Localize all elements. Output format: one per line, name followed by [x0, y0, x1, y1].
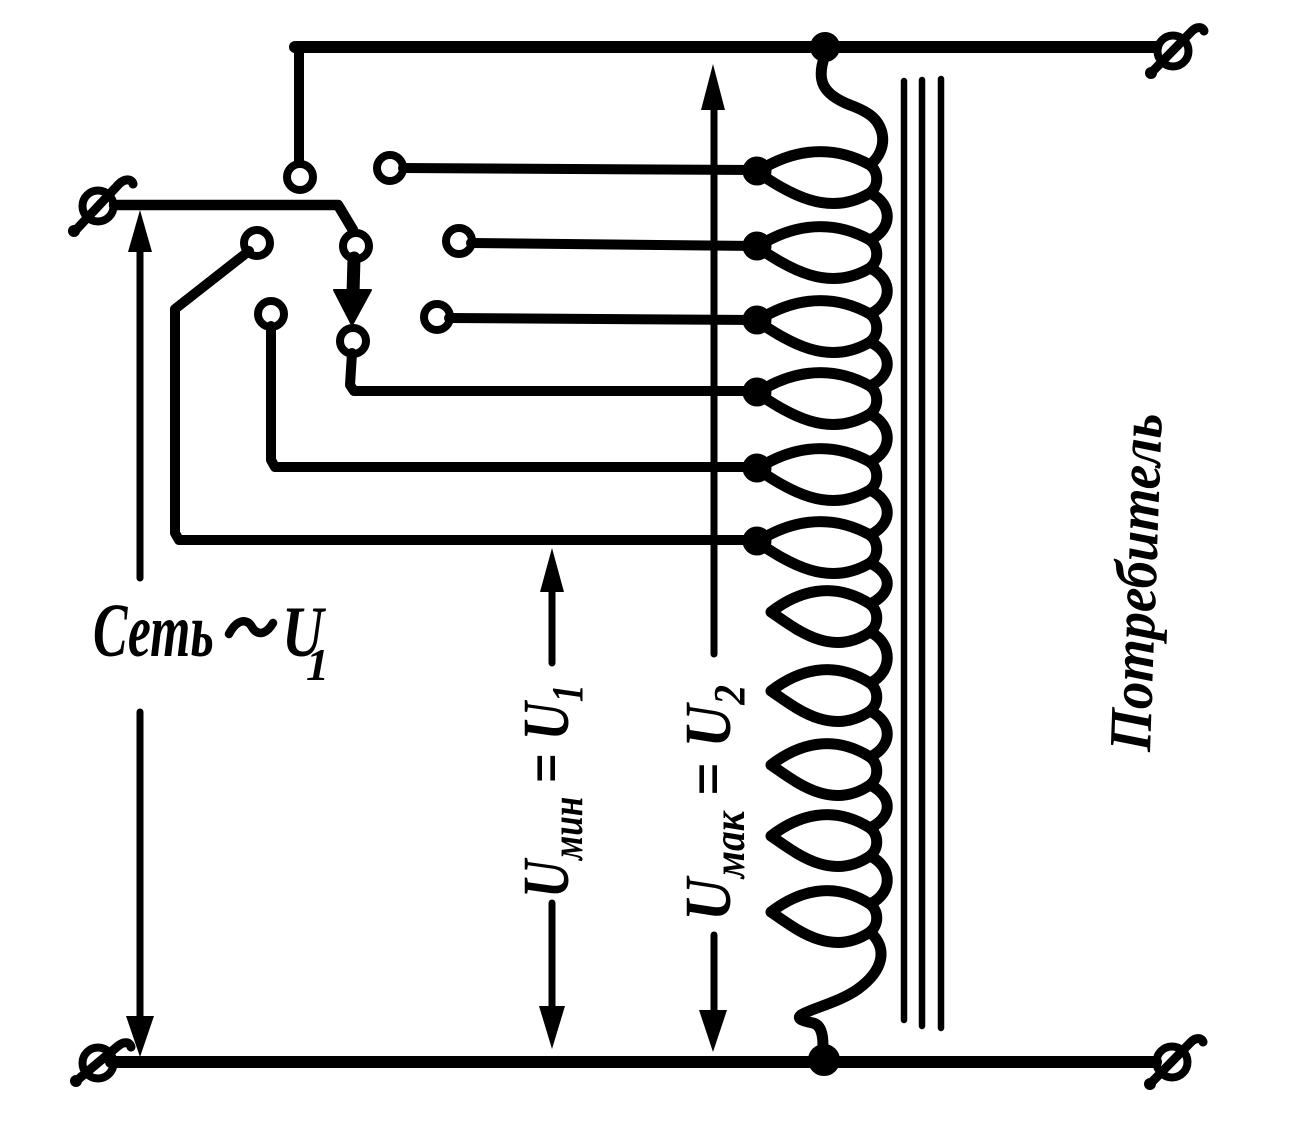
- winding loop 9: [771, 744, 877, 796]
- wire switch lower to winding tap 4: [350, 353, 756, 391]
- wire tap E to winding tap 1: [403, 168, 756, 170]
- svg-text:Потребитель: Потребитель: [1098, 412, 1176, 753]
- winding loop 5: [757, 449, 877, 501]
- winding arc 8-9: [870, 711, 887, 757]
- dimension arrow left U1: [126, 210, 154, 1057]
- label Сеть ~ U1: [93, 589, 329, 690]
- switch wiper arrow: [334, 258, 371, 325]
- winding loop 10: [771, 815, 877, 867]
- svg-text:Uмин = U1: Uмин = U1: [509, 684, 591, 898]
- winding arc 9-10: [870, 785, 887, 828]
- terminal output bottom-right: [1144, 1039, 1203, 1090]
- wire winding bottom lead: [799, 932, 881, 1046]
- winding arc 7-8: [870, 632, 887, 683]
- winding loop 7: [771, 591, 877, 643]
- winding loop 4: [757, 373, 877, 425]
- contact switch common top: [287, 164, 313, 190]
- wire tap B to winding tap 5: [271, 326, 756, 467]
- winding loop 2: [757, 227, 877, 279]
- contact switch lower: [340, 328, 366, 354]
- terminal output top-right: [1145, 28, 1204, 79]
- winding loop 1: [757, 152, 877, 204]
- winding arc 6-7: [870, 563, 887, 604]
- winding loop 11: [771, 891, 877, 943]
- winding arc 5-6: [870, 490, 887, 535]
- wire tap D to winding tap 2: [471, 243, 756, 246]
- wire top bus: [294, 52, 304, 161]
- core lines: [904, 79, 941, 1028]
- contact switch upper: [343, 233, 369, 259]
- winding arc 3-4: [870, 342, 887, 386]
- contact tap D: [446, 228, 472, 254]
- node tap 2: [744, 233, 771, 260]
- node tap 1: [744, 158, 771, 185]
- svg-text:Сеть: Сеть: [93, 589, 214, 673]
- wire winding top lead: [821, 55, 883, 164]
- dimension arrow Umin: [539, 548, 565, 1049]
- winding arc 4-5: [870, 414, 887, 462]
- node tap 6: [744, 528, 771, 555]
- winding arc 2-3: [870, 268, 887, 314]
- svg-text:Uмак = U2: Uмак = U2: [671, 685, 754, 921]
- terminal input top-left: [68, 180, 133, 237]
- winding arc 1-2: [870, 193, 887, 240]
- node tap 5: [744, 455, 771, 482]
- terminal input bottom-left: [70, 1043, 131, 1087]
- winding loop 6: [757, 522, 877, 574]
- contact tap C: [424, 304, 450, 330]
- contact tap B: [258, 301, 284, 327]
- wire bottom bus: [111, 1056, 1156, 1068]
- winding loop 8: [771, 670, 877, 722]
- contact tap A: [244, 230, 270, 256]
- wire tap C to winding tap 3: [449, 318, 756, 320]
- node bottom junction: [809, 1045, 839, 1075]
- winding loop 3: [757, 301, 877, 353]
- dimension arrow Umak: [699, 64, 727, 1052]
- node tap 3: [744, 307, 771, 334]
- winding L1 autotransformer: [757, 55, 887, 1046]
- contact tap E: [377, 155, 403, 181]
- svg-text:1: 1: [306, 639, 329, 690]
- node tap 4: [744, 379, 771, 406]
- wire input from left terminal: [114, 205, 353, 230]
- node top junction: [811, 33, 839, 61]
- wire tap A to winding tap 6: [175, 251, 756, 540]
- winding arc 10-11: [870, 856, 887, 904]
